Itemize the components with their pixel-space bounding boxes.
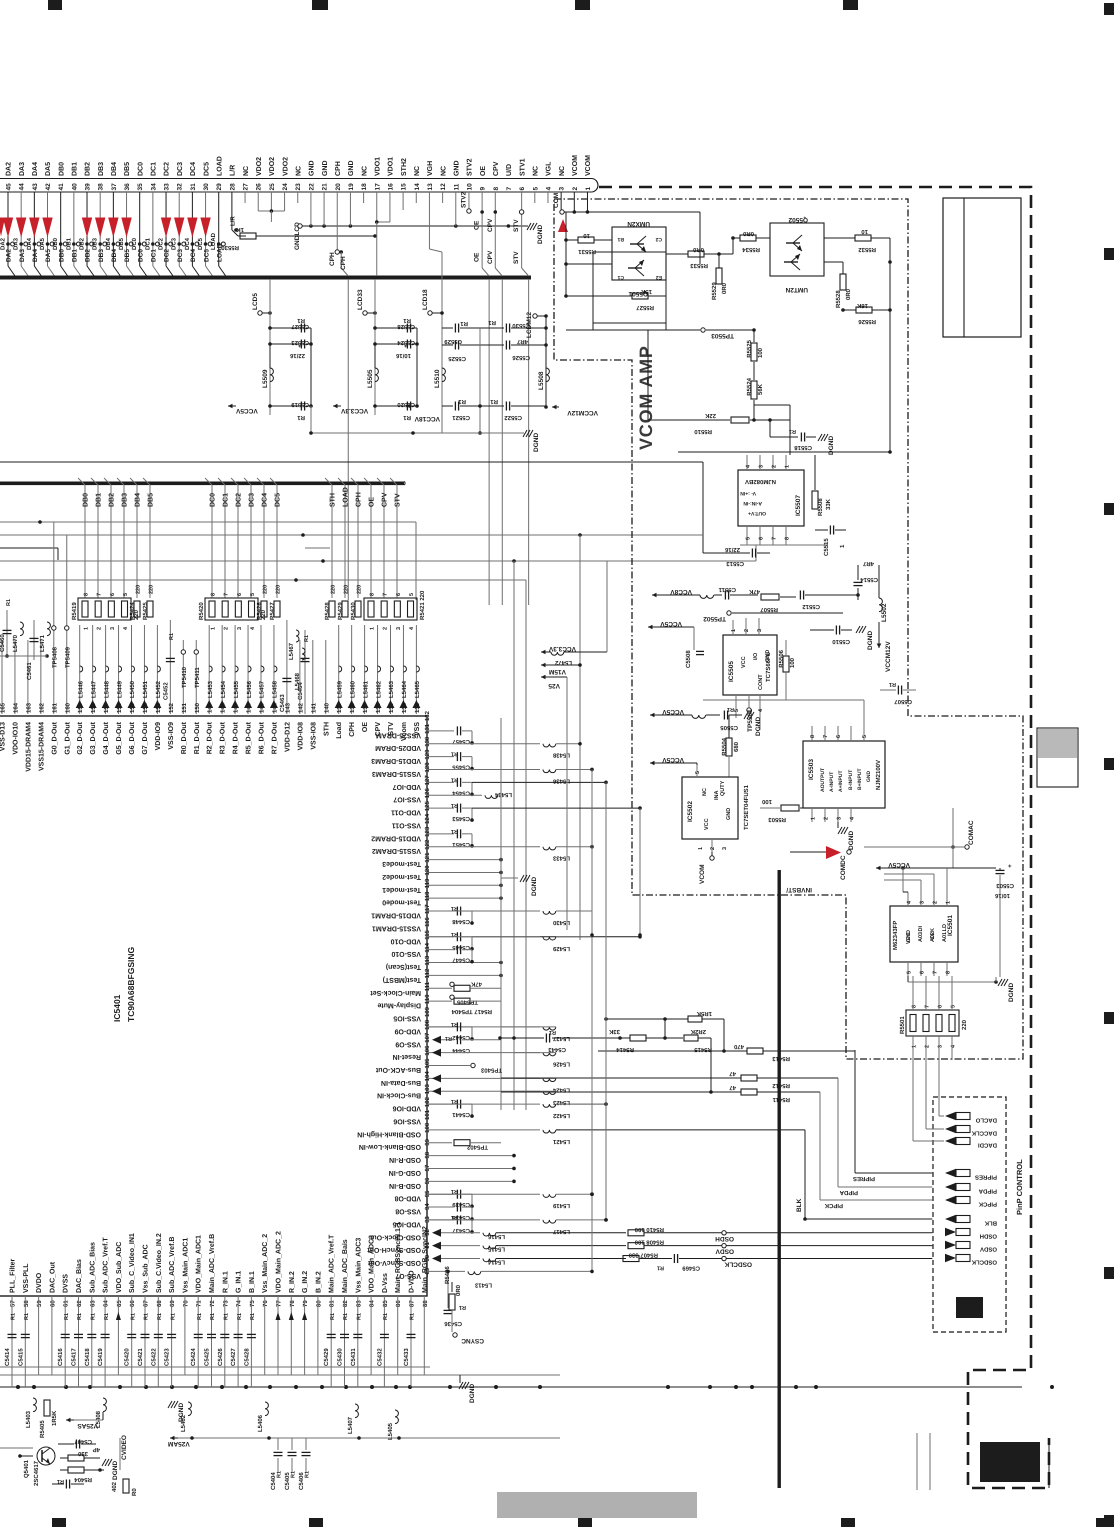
svg-text:3: 3	[396, 627, 402, 630]
svg-text:40: 40	[71, 183, 78, 191]
PinP pin OSDCLK	[956, 1255, 970, 1262]
node VCOM	[710, 856, 714, 860]
svg-text:VDD25-DRAM: VDD25-DRAM	[375, 744, 421, 751]
svg-text:47K: 47K	[470, 980, 482, 987]
ground DGND csync	[459, 1375, 461, 1383]
svg-text:R5428: R5428	[324, 602, 331, 620]
power label VCC3.3V	[541, 651, 549, 653]
wire rail y535	[0, 534, 703, 536]
svg-text:OE: OE	[474, 252, 481, 262]
svg-text:VDO_Main_ADC1: VDO_Main_ADC1	[195, 1235, 203, 1293]
power label VCC5V	[228, 405, 236, 407]
svg-text:R5414: R5414	[616, 1046, 634, 1053]
registration mark bottom 1	[52, 1518, 66, 1527]
svg-text:47: 47	[729, 1084, 736, 1091]
svg-text:R5405: R5405	[39, 1420, 46, 1438]
svg-text:C5453: C5453	[452, 815, 470, 822]
resistor R5412 47	[501, 1077, 741, 1079]
svg-text:C5416: C5416	[57, 1348, 64, 1366]
wire pin115 long	[472, 936, 640, 938]
svg-text:Vss_Main_ADC1: Vss_Main_ADC1	[181, 1238, 189, 1293]
svg-text:R5430: R5430	[350, 602, 357, 620]
svg-text:VDO2: VDO2	[282, 157, 289, 176]
wire VGH to LCD18 column	[428, 192, 430, 249]
svg-text:41: 41	[58, 183, 65, 191]
svg-text:G3_D-Out: G3_D-Out	[90, 721, 97, 754]
svg-text:DA4: DA4	[26, 237, 33, 250]
svg-text:2: 2	[772, 465, 778, 468]
svg-text:DB1: DB1	[72, 162, 79, 176]
svg-text:6: 6	[920, 971, 926, 974]
svg-text:1: 1	[698, 847, 704, 850]
svg-text:DB1: DB1	[72, 249, 79, 262]
svg-text:NC: NC	[702, 788, 708, 796]
power label VCCM12V	[552, 406, 559, 408]
data pin wires 45..29 to bus	[7, 192, 9, 266]
svg-text:DC3: DC3	[177, 162, 184, 176]
svg-text:R1: R1	[889, 681, 896, 687]
capacitor C5513 22/16 (electrolytic)	[751, 549, 753, 558]
resistor R5510 22K	[731, 417, 749, 423]
svg-text:TP5402: TP5402	[466, 1144, 488, 1151]
svg-text:102: 102	[424, 1096, 431, 1107]
svg-text:R5504: R5504	[721, 737, 728, 755]
testpoint TP5501	[747, 708, 751, 712]
capacitor C5454	[427, 781, 454, 783]
svg-text:93: 93	[424, 1216, 431, 1223]
capacitor C5438	[427, 1206, 454, 1208]
svg-text:144: 144	[271, 702, 278, 713]
svg-text:DGND: DGND	[848, 831, 855, 850]
svg-text:DB2: DB2	[85, 249, 92, 262]
svg-text:1: 1	[785, 465, 791, 468]
svg-text:680: 680	[733, 741, 740, 752]
analog switch IC5505 TC7S66FU	[723, 635, 777, 695]
svg-text:G2_D-Out: G2_D-Out	[77, 721, 84, 754]
inductor L5510	[442, 368, 445, 382]
svg-text:C5519: C5519	[291, 401, 309, 408]
svg-text:116: 116	[424, 917, 431, 927]
svg-text:L5414: L5414	[487, 1259, 505, 1266]
svg-text:2: 2	[710, 847, 716, 850]
svg-text:L5402: L5402	[180, 1414, 187, 1432]
svg-text:161: 161	[51, 702, 58, 713]
svg-text:B_IN.1: B_IN.1	[249, 1271, 256, 1293]
svg-text:NC: NC	[295, 166, 302, 176]
svg-text:V25AM: V25AM	[168, 1440, 190, 1447]
svg-text:R5429: R5429	[337, 602, 344, 620]
wire PIPCK	[819, 1092, 821, 1200]
svg-text:VDD-O10: VDD-O10	[391, 937, 421, 944]
svg-text:1: 1	[731, 629, 737, 632]
svg-text:4R7: 4R7	[862, 560, 874, 567]
resistor R5508 33K	[812, 491, 818, 509]
svg-text:8: 8	[493, 187, 500, 191]
svg-text:157: 157	[103, 702, 110, 713]
svg-text:COMAC: COMAC	[968, 820, 975, 845]
resistor R5530 1K on L/R	[231, 192, 233, 230]
svg-text:Test(Scan): Test(Scan)	[386, 963, 421, 971]
svg-text:DB5: DB5	[118, 237, 125, 250]
svg-text:C5508: C5508	[685, 650, 692, 668]
svg-text:5: 5	[951, 1005, 957, 1008]
resistor R5429 220	[342, 601, 348, 617]
svg-text:AOUTPUT: AOUTPUT	[820, 768, 826, 792]
power label VCC5V d	[876, 867, 884, 869]
svg-text:VCC5V: VCC5V	[235, 407, 257, 414]
svg-text:47K: 47K	[748, 588, 760, 595]
svg-text:L5461: L5461	[362, 680, 369, 698]
svg-text:5: 5	[862, 735, 868, 738]
svg-text:LOAD: LOAD	[210, 232, 217, 250]
power label V25	[541, 676, 549, 678]
svg-text:R5420: R5420	[198, 602, 205, 620]
svg-text:DC2: DC2	[164, 162, 171, 176]
capacitor C5526 4R7	[480, 344, 504, 346]
svg-text:CLK: CLK	[930, 928, 936, 939]
ferrite bead L5461	[364, 625, 366, 714]
svg-text:NJM2100V: NJM2100V	[875, 760, 882, 790]
svg-text:0R0: 0R0	[721, 282, 728, 294]
resistor R5414 33K	[630, 1035, 646, 1041]
svg-text:126: 126	[424, 788, 431, 799]
svg-text:OSDCLK: OSDCLK	[724, 1261, 752, 1268]
svg-text:R3_D-Out: R3_D-Out	[220, 721, 227, 754]
svg-text:C5419: C5419	[97, 1348, 104, 1366]
svg-text:Reset-IN: Reset-IN	[393, 1053, 421, 1060]
svg-text:C5430: C5430	[337, 1348, 344, 1366]
capacitor C5510	[835, 626, 837, 635]
testpoint TP5502	[727, 611, 731, 615]
PinP pin PIPDA	[956, 1184, 970, 1191]
svg-text:C5422: C5422	[150, 1348, 157, 1366]
svg-text:C5428: C5428	[243, 1348, 250, 1366]
svg-text:R_IN.2: R_IN.2	[289, 1271, 296, 1293]
svg-text:VDD-D12: VDD-D12	[284, 722, 291, 752]
svg-text:78: 78	[289, 1300, 296, 1307]
ferrite bead L5433	[427, 846, 540, 848]
svg-text:CSYNC: CSYNC	[461, 1337, 484, 1344]
arrow pin104	[432, 1074, 441, 1082]
svg-text:R7_D-Out: R7_D-Out	[271, 721, 278, 754]
svg-text:37: 37	[111, 183, 118, 191]
svg-text:R1: R1	[451, 802, 458, 808]
svg-text:76: 76	[262, 1300, 269, 1307]
svg-text:105: 105	[424, 1058, 431, 1069]
svg-text:DA2: DA2	[0, 237, 7, 250]
svg-text:1R5K: 1R5K	[51, 1410, 58, 1426]
IC U5401 TC90A68BFGSING body	[0, 716, 427, 1296]
svg-text:Bus-Clock-IN: Bus-Clock-IN	[377, 1092, 421, 1100]
wire DACCLK	[925, 1036, 927, 1129]
svg-text:IC5507: IC5507	[795, 495, 802, 516]
node LCD18	[428, 311, 432, 315]
svg-text:STV1: STV1	[519, 158, 526, 176]
svg-text:Sub_ADC_Vref.T: Sub_ADC_Vref.T	[102, 1237, 110, 1293]
wire LCD5 right rail	[310, 328, 312, 406]
svg-text:G4_D-Out: G4_D-Out	[103, 721, 110, 754]
svg-text:G_IN.1: G_IN.1	[236, 1271, 243, 1293]
svg-text:143: 143	[284, 702, 291, 713]
black block bottom right	[980, 1442, 1040, 1482]
svg-text:V15M: V15M	[549, 668, 566, 675]
wire tails below PinP	[916, 1433, 918, 1490]
svg-text:L5448: L5448	[103, 680, 110, 698]
resistor R5531 10	[578, 237, 594, 243]
svg-text:PinP CONTROL: PinP CONTROL	[1015, 1159, 1024, 1215]
wire OSDV resistor R5408 100	[628, 1243, 644, 1249]
svg-text:5: 5	[123, 593, 129, 596]
svg-text:VDD15-DRAM3: VDD15-DRAM3	[371, 757, 421, 764]
bus LCD data (thick)	[0, 276, 531, 280]
svg-text:L5426: L5426	[552, 1061, 570, 1068]
svg-text:45: 45	[6, 183, 13, 191]
wire rail y1375	[0, 1374, 560, 1376]
svg-text:82: 82	[342, 1300, 349, 1307]
svg-text:R1: R1	[57, 1478, 64, 1484]
svg-text:R1: R1	[277, 1471, 283, 1478]
node LCD33	[363, 311, 367, 315]
resistor R5404	[68, 1467, 84, 1473]
svg-text:L5417: L5417	[552, 1228, 570, 1235]
ferrite bead L5457	[260, 625, 262, 714]
svg-text:108: 108	[424, 1019, 431, 1030]
svg-text:CONT: CONT	[758, 674, 764, 690]
svg-text:STV2: STV2	[460, 191, 467, 208]
svg-text:DACCLK: DACCLK	[971, 1130, 997, 1137]
svg-text:R5411: R5411	[772, 1096, 790, 1103]
svg-text:L5450: L5450	[129, 680, 136, 698]
svg-text:R1: R1	[727, 706, 734, 712]
resistor R5534 0R0	[740, 235, 756, 241]
svg-text:142: 142	[297, 702, 304, 713]
svg-text:3: 3	[837, 817, 843, 820]
svg-text:3: 3	[938, 1045, 944, 1048]
svg-text:58: 58	[23, 1300, 30, 1307]
svg-text:29: 29	[216, 183, 223, 191]
capacitor C5521 R1	[442, 405, 453, 407]
svg-text:VCC5V: VCC5V	[662, 756, 684, 763]
bus INVBST (thick vertical)	[778, 870, 781, 1488]
svg-text:104: 104	[424, 1071, 431, 1082]
inverter IC5502 TC7SET04FUS1	[682, 777, 738, 839]
inductor L5503	[700, 595, 714, 598]
svg-text:L5456: L5456	[246, 680, 253, 698]
ferrite bead L5454	[221, 625, 223, 714]
capacitor C5437	[427, 1219, 454, 1221]
wire pin102 bead	[556, 1103, 606, 1105]
svg-text:R5529: R5529	[711, 282, 718, 300]
PinP pin BLK	[956, 1216, 970, 1223]
resistor R5405 1R5K	[44, 1400, 50, 1416]
svg-text:Vss_Main_ADC_2: Vss_Main_ADC_2	[261, 1234, 269, 1293]
svg-text:VDO1: VDO1	[388, 157, 395, 176]
svg-text:G_IN.2: G_IN.2	[302, 1271, 309, 1293]
svg-text:C5407: C5407	[74, 1438, 92, 1445]
svg-text:STH: STH	[323, 722, 330, 736]
svg-text:R5507: R5507	[760, 606, 778, 613]
svg-text:C5515: C5515	[823, 538, 830, 556]
svg-text:DA5: DA5	[45, 162, 52, 176]
transistor Q5502 UMT2N	[770, 223, 824, 276]
capacitor C5520	[375, 405, 405, 407]
capacitor C5503 10/16	[996, 869, 1005, 871]
wire STH2 stub	[402, 192, 404, 210]
wire IC5507 feed	[769, 420, 771, 437]
svg-text:VSS-O11: VSS-O11	[392, 821, 421, 828]
svg-text:159: 159	[77, 702, 84, 713]
svg-text:R1: R1	[157, 1313, 163, 1320]
svg-text:1: 1	[912, 1045, 918, 1048]
svg-text:103: 103	[424, 1084, 431, 1095]
svg-text:CPV: CPV	[382, 492, 389, 507]
svg-text:4: 4	[951, 1044, 957, 1048]
svg-text:R1: R1	[305, 1471, 311, 1478]
svg-text:R5407 330: R5407 330	[628, 1252, 658, 1259]
arrow+bead pins 92 91 90 to OSD nets	[432, 1229, 441, 1237]
svg-text:VSS-O10: VSS-O10	[391, 950, 421, 957]
svg-text:M62343FP: M62343FP	[892, 921, 899, 950]
svg-text:DC5: DC5	[203, 162, 210, 176]
capacitor C5529 R1	[442, 327, 453, 329]
svg-text:STH: STH	[330, 493, 337, 507]
testpoint TP5411	[195, 640, 197, 714]
svg-text:DC4: DC4	[190, 162, 197, 176]
svg-text:DGND: DGND	[531, 877, 538, 896]
svg-text:VSS-PLL: VSS-PLL	[23, 1263, 30, 1293]
ferrite bead L5424	[427, 1077, 540, 1079]
registration mark bottom 2	[309, 1518, 323, 1527]
svg-text:30: 30	[203, 183, 210, 191]
svg-text:L5449: L5449	[116, 680, 123, 698]
capacitor C5447	[427, 949, 454, 951]
svg-text:220: 220	[961, 1019, 968, 1030]
svg-text:C5527: C5527	[291, 323, 309, 330]
svg-text:IC5505: IC5505	[728, 661, 735, 682]
svg-text:GND: GND	[726, 808, 732, 820]
svg-text:2: 2	[572, 187, 579, 191]
registration mark top 4	[843, 0, 858, 10]
svg-text:C5424: C5424	[190, 1348, 197, 1366]
resistor R5418 1R5K	[606, 1018, 688, 1020]
svg-text:DGND: DGND	[533, 433, 540, 452]
svg-text:L5416: L5416	[487, 1233, 505, 1240]
capacitor C5515 1	[829, 526, 831, 535]
svg-text:22/16: 22/16	[289, 352, 305, 359]
wire rail y522	[0, 521, 416, 523]
border outer (long dash)	[599, 187, 1049, 1488]
svg-text:GND: GND	[348, 160, 355, 176]
svg-text:7: 7	[224, 593, 230, 596]
ferrite bead L5456	[247, 625, 249, 714]
svg-text:C5447: C5447	[452, 957, 470, 964]
ferrite bead L5438	[427, 743, 540, 745]
resistor R5503 100	[781, 805, 799, 811]
wire rail-to-VCOM x703	[702, 462, 704, 553]
node CPH	[336, 192, 338, 252]
svg-text:DA4: DA4	[32, 249, 39, 262]
wire A-OUT long	[678, 451, 890, 453]
svg-text:C5526: C5526	[512, 354, 530, 361]
svg-text:220: 220	[344, 585, 350, 594]
svg-text:130: 130	[424, 736, 431, 747]
svg-text:28: 28	[229, 183, 236, 191]
border PinP (dashed)	[933, 1097, 1006, 1332]
svg-text:VDD15-DRAM1: VDD15-DRAM1	[371, 912, 421, 919]
svg-text:OSDH: OSDH	[980, 1233, 997, 1240]
testpoint TP5402	[427, 1142, 452, 1144]
svg-text:6: 6	[110, 593, 116, 596]
svg-text:L5502: L5502	[881, 603, 888, 622]
svg-text:R5510: R5510	[694, 428, 712, 435]
wire y553 left	[702, 545, 704, 553]
power label VCC18V	[406, 405, 414, 407]
capacitor C5528	[375, 327, 405, 329]
svg-text:A-IN:-IN: A-IN:-IN	[743, 500, 762, 506]
node LCDM12	[533, 314, 537, 318]
svg-text:CPH: CPH	[340, 256, 347, 270]
svg-text:R1: R1	[488, 319, 496, 326]
svg-text:71: 71	[196, 1300, 203, 1307]
svg-text:43: 43	[32, 183, 39, 191]
svg-text:VSS15-DRAM3: VSS15-DRAM3	[372, 770, 421, 777]
resistor R5428 220	[329, 601, 335, 617]
svg-text:B-INPUT: B-INPUT	[848, 770, 854, 790]
svg-text:C5423: C5423	[164, 1348, 171, 1366]
ferrite bead L5463	[390, 625, 392, 714]
svg-text:L5453: L5453	[207, 680, 214, 698]
svg-text:GND: GND	[906, 930, 912, 942]
capacitor C5439	[427, 1193, 454, 1195]
svg-text:R1: R1	[11, 1313, 17, 1320]
svg-text:VSS-D13: VSS-D13	[0, 722, 7, 751]
wire rail x501	[500, 718, 502, 1110]
svg-text:TP5403: TP5403	[480, 1066, 502, 1073]
svg-text:L5464: L5464	[401, 680, 408, 698]
svg-text:G1_D-Out: G1_D-Out	[64, 721, 71, 754]
svg-text:Test-mode2: Test-mode2	[382, 873, 421, 881]
svg-text:109: 109	[424, 1006, 431, 1017]
svg-text:R1: R1	[104, 1313, 110, 1320]
svg-text:VSS15-DRAM4: VSS15-DRAM4	[38, 722, 45, 771]
svg-text:65: 65	[116, 1300, 123, 1307]
svg-text:R5530: R5530	[221, 244, 239, 251]
svg-text:107: 107	[424, 1032, 431, 1043]
capacitor C5408 R1	[65, 1480, 67, 1489]
svg-text:L/R: L/R	[230, 216, 237, 226]
svg-text:156: 156	[116, 702, 123, 713]
capacitor C5525 633	[442, 344, 453, 346]
svg-text:DC4: DC4	[262, 493, 269, 507]
svg-text:8: 8	[84, 593, 90, 596]
svg-text:114: 114	[424, 942, 431, 952]
svg-text:5: 5	[907, 971, 913, 974]
svg-text:L5413: L5413	[474, 1281, 492, 1288]
wire pin127 to rail	[472, 781, 606, 783]
svg-text:C5528: C5528	[397, 323, 415, 330]
svg-text:OSD-B-IN: OSD-B-IN	[389, 1182, 421, 1189]
svg-text:IC5503: IC5503	[808, 759, 815, 780]
svg-text:C5431: C5431	[350, 1348, 357, 1366]
svg-text:Sub_ADC_Vref.B: Sub_ADC_Vref.B	[168, 1237, 176, 1293]
svg-text:R1: R1	[210, 1313, 216, 1320]
svg-text:C5507: C5507	[894, 698, 912, 705]
svg-text:160: 160	[64, 702, 71, 713]
svg-text:R1: R1	[451, 931, 458, 937]
svg-text:C5441: C5441	[452, 1111, 470, 1118]
svg-text:VDD-IO9: VDD-IO9	[155, 722, 162, 751]
svg-text:8: 8	[785, 537, 791, 540]
